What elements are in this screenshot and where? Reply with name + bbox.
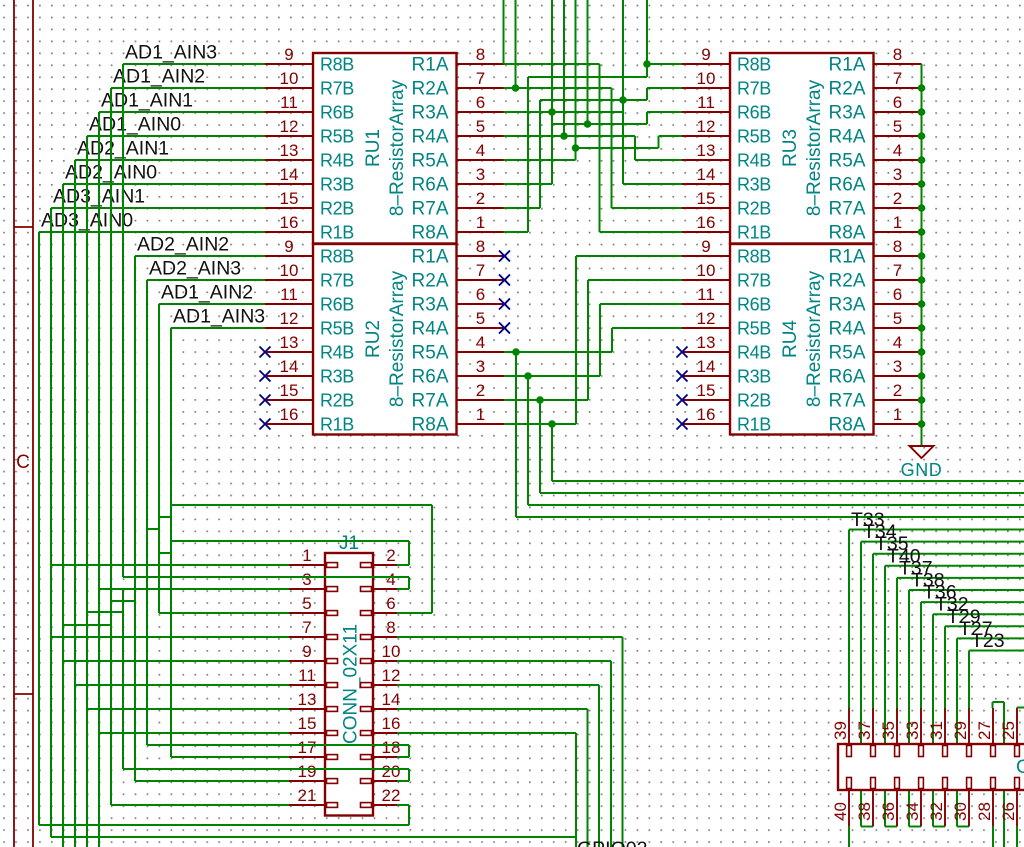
wire RU2.1 row424 bbox=[504, 423, 576, 425]
RU4 pin 7 line bbox=[874, 279, 922, 281]
P2 pin 40 line bbox=[848, 790, 850, 826]
svg-text:12: 12 bbox=[697, 309, 716, 328]
wire bundle vertical x=135 bbox=[134, 256, 136, 781]
P2 pin 35 line bbox=[896, 708, 898, 744]
svg-text:R5A: R5A bbox=[829, 151, 866, 172]
svg-text:4: 4 bbox=[893, 141, 902, 160]
svg-text:11: 11 bbox=[280, 93, 298, 112]
svg-text:R3B: R3B bbox=[320, 175, 354, 195]
P2 pin 38 line bbox=[872, 790, 874, 826]
wire T23 y=650.5 bbox=[969, 650, 1024, 652]
svg-text:R8A: R8A bbox=[829, 223, 866, 244]
svg-text:R6B: R6B bbox=[737, 295, 771, 315]
wire AD2_AIN3 to RU2 pin 10 bbox=[147, 279, 265, 281]
wire RU1.5 row136 bbox=[504, 135, 636, 137]
junction 587.5,124 bbox=[584, 120, 592, 128]
P2 pin 31 pad bbox=[943, 746, 948, 757]
RU4 pin 11 line bbox=[682, 303, 730, 305]
wire J1 pin18 riser bbox=[408, 745, 410, 757]
wire hook vertical x=957 bbox=[956, 638, 958, 826]
P2 pin 36 line bbox=[896, 790, 898, 826]
J1 pin 16 line bbox=[373, 732, 409, 734]
RU4 no-connect pin 13 bbox=[677, 347, 688, 358]
wire from top x=587.5 bbox=[587, 0, 589, 124]
svg-text:J1: J1 bbox=[339, 533, 359, 554]
wire hook stub x=945 bbox=[944, 825, 946, 827]
svg-text:15: 15 bbox=[298, 714, 317, 733]
wire T29 to pin31 bbox=[944, 626, 946, 708]
wire hook stub x=969 bbox=[968, 825, 970, 827]
wire RU1.8 row64 left bbox=[504, 63, 600, 65]
svg-text:36: 36 bbox=[879, 802, 898, 821]
svg-text:R8B: R8B bbox=[737, 247, 771, 267]
P2 pin 33 pad bbox=[919, 746, 924, 757]
svg-text:R8B: R8B bbox=[737, 55, 771, 75]
P2 pin 37 line bbox=[872, 708, 874, 744]
bus riser x=516 bbox=[515, 352, 517, 517]
svg-text:21: 21 bbox=[298, 786, 317, 805]
wire x=528 bbox=[527, 77, 529, 232]
wire to RU3.16 row232 bbox=[600, 231, 683, 233]
svg-text:R1A: R1A bbox=[412, 55, 449, 76]
junction rail y=376 bbox=[918, 372, 926, 380]
P2 pin 27 line bbox=[992, 708, 994, 744]
J1 pin 7 line bbox=[289, 636, 325, 638]
svg-text:13: 13 bbox=[280, 333, 299, 352]
svg-text:8: 8 bbox=[893, 237, 902, 256]
svg-text:R5A: R5A bbox=[412, 151, 449, 172]
RU4 pin 12 line bbox=[682, 327, 730, 329]
wire GPIO vertical x=622.5 bbox=[622, 637, 624, 847]
connector P2 body bbox=[838, 744, 1024, 790]
J1 pin 6 line bbox=[373, 612, 409, 614]
P2 pin 26 line bbox=[1016, 790, 1018, 826]
P2 pin 29 pad bbox=[967, 746, 972, 757]
svg-text:38: 38 bbox=[855, 802, 874, 821]
svg-text:R3A: R3A bbox=[412, 295, 449, 316]
svg-text:13: 13 bbox=[697, 333, 716, 352]
junction 528,376 bbox=[524, 372, 532, 380]
resistor array RU4 body bbox=[730, 244, 874, 435]
wire T23 to pin29 bbox=[968, 651, 970, 709]
P2 pin 25 pad bbox=[1015, 746, 1020, 757]
junction rail y=160 bbox=[918, 156, 926, 164]
wire jog y=553 bbox=[159, 552, 171, 554]
J1 pin 16 pad bbox=[361, 731, 372, 736]
svg-text:3: 3 bbox=[476, 357, 485, 376]
wire hook vertical x=909 bbox=[908, 590, 910, 827]
svg-text:GND: GND bbox=[901, 460, 943, 480]
RU1 pin 6 line bbox=[457, 111, 505, 113]
junction 647,64 bbox=[643, 60, 651, 68]
svg-text:R6B: R6B bbox=[320, 103, 354, 123]
svg-text:15: 15 bbox=[280, 381, 299, 400]
wire to J1 left pin at y=733 bbox=[99, 732, 289, 734]
wire to RU3.9 row64 bbox=[647, 63, 682, 65]
svg-text:3: 3 bbox=[302, 570, 311, 589]
wire bundle vertical x=171 bbox=[170, 328, 172, 757]
wire x=611.5 bbox=[611, 88, 613, 208]
RU2 no-connect pin 15 bbox=[260, 395, 271, 406]
svg-text:5: 5 bbox=[893, 117, 902, 136]
J1 pin 7 pad bbox=[327, 635, 338, 640]
svg-text:35: 35 bbox=[879, 721, 898, 740]
wire T33 to pin39 bbox=[848, 530, 850, 709]
J1 pin 2 pad bbox=[361, 563, 372, 568]
wire J1 pin20 feed y=769 (crosses J1) bbox=[123, 768, 409, 770]
RU3 pin 14 line bbox=[682, 183, 730, 185]
junction rail y=280 bbox=[918, 276, 926, 284]
wire to RU3.12 row136 bbox=[659, 135, 683, 137]
svg-text:14: 14 bbox=[382, 690, 401, 709]
svg-text:R1B: R1B bbox=[320, 223, 354, 243]
svg-text:8–ResistorArray: 8–ResistorArray bbox=[387, 79, 408, 216]
wire AD3_AIN1 to RU1 pin 15 bbox=[51, 207, 265, 209]
J1 pin 8 line bbox=[373, 636, 409, 638]
RU4 pin 8 line bbox=[874, 255, 922, 257]
wire GPIO vertical x=599 bbox=[598, 685, 600, 847]
wire J1 pin14 to GPIO bbox=[397, 708, 588, 710]
wire J1 pin12 to GPIO bbox=[397, 684, 599, 686]
wire AD3_AIN0 to RU1 pin 16 bbox=[39, 231, 265, 233]
RU4 pin 14 line bbox=[682, 375, 730, 377]
svg-text:6: 6 bbox=[476, 93, 485, 112]
wire RU2.4 row352 bbox=[504, 351, 612, 353]
frame row tick bottom bbox=[14, 693, 33, 695]
svg-text:12: 12 bbox=[280, 117, 299, 136]
svg-text:8: 8 bbox=[476, 45, 485, 64]
svg-text:R4A: R4A bbox=[829, 127, 866, 148]
wire AD1_AIN1 to RU1 pin 11 bbox=[99, 111, 265, 113]
wire x=1004 down bbox=[1003, 702, 1005, 847]
wire to RU3.10 row88 bbox=[647, 87, 682, 89]
svg-text:11: 11 bbox=[697, 285, 715, 304]
svg-text:5: 5 bbox=[893, 309, 902, 328]
bus riser x=552 bbox=[551, 424, 553, 481]
svg-text:R4B: R4B bbox=[737, 151, 771, 171]
svg-text:15: 15 bbox=[697, 381, 716, 400]
RU3 pin 4 line bbox=[874, 159, 922, 161]
svg-text:R7A: R7A bbox=[829, 199, 866, 220]
wire bundle vertical x=123 bbox=[122, 64, 124, 577]
svg-text:14: 14 bbox=[697, 357, 716, 376]
wire bundle vertical x=51 bbox=[50, 208, 52, 837]
RU4 no-connect pin 15 bbox=[677, 395, 688, 406]
svg-text:AD1_AIN0: AD1_AIN0 bbox=[89, 114, 181, 136]
bus wire y=517 bbox=[516, 516, 1024, 518]
svg-text:6: 6 bbox=[893, 93, 902, 112]
svg-text:RU3: RU3 bbox=[780, 129, 801, 167]
frame border line left inner bbox=[32, 0, 34, 847]
wire hook horizontal to pin x=921 bbox=[909, 826, 921, 828]
wire AD1_AIN3 to RU2 pin 12 bbox=[171, 327, 265, 329]
wire T37 y=577.9 bbox=[897, 577, 1024, 579]
wire from top x=552 bbox=[551, 0, 553, 184]
wire hook stub x=921 bbox=[920, 825, 922, 827]
J1 pin 15 pad bbox=[327, 731, 338, 736]
bus wire y=481 bbox=[552, 480, 1024, 482]
wire J1 pin22 stub bbox=[397, 804, 409, 806]
wire T34 y=541.6 bbox=[861, 541, 1024, 543]
J1 pin 15 line bbox=[289, 732, 325, 734]
svg-text:AD1_AIN2: AD1_AIN2 bbox=[161, 282, 253, 304]
wire to RU3.13 row160 bbox=[635, 159, 682, 161]
svg-text:7: 7 bbox=[893, 69, 902, 88]
svg-text:R7B: R7B bbox=[737, 79, 771, 99]
wire x=647 mid bbox=[646, 88, 648, 100]
RU3 pin 13 line bbox=[682, 159, 730, 161]
wire to J1 left pin at y=661 bbox=[63, 660, 289, 662]
wire to RU4.9 row256 bbox=[576, 255, 682, 257]
J1 pin 20 line bbox=[373, 780, 409, 782]
svg-text:39: 39 bbox=[831, 721, 850, 740]
RU2 pin 2 line bbox=[457, 399, 505, 401]
RU2 pin 11 line bbox=[265, 303, 313, 305]
svg-text:8: 8 bbox=[476, 237, 485, 256]
RU2 pin 15 line bbox=[265, 399, 313, 401]
junction 552,112 bbox=[548, 108, 556, 116]
junction 540,400 bbox=[536, 396, 544, 404]
svg-text:6: 6 bbox=[386, 594, 395, 613]
wire T37 to pin35 bbox=[896, 578, 898, 708]
J1 pin 22 pad bbox=[361, 803, 372, 808]
wire AD2_AIN1 to RU1 pin 13 bbox=[75, 159, 265, 161]
wire pin40 down bbox=[848, 826, 850, 847]
RU2 no-connect pin 7 bbox=[499, 275, 510, 286]
wire T36 to pin33 bbox=[920, 602, 922, 708]
wire J1 pin18 stub bbox=[397, 756, 409, 758]
J1 pin 14 pad bbox=[361, 707, 372, 712]
RU4 pin 15 line bbox=[682, 399, 730, 401]
svg-text:10: 10 bbox=[280, 261, 299, 280]
wire AD2_AIN0 to RU1 pin 14 bbox=[63, 183, 265, 185]
svg-text:CONN_02X20: CONN_02X20 bbox=[1016, 757, 1024, 778]
svg-text:R6A: R6A bbox=[412, 175, 449, 196]
J1 pin 22 line bbox=[373, 804, 409, 806]
RU1 pin 15 line bbox=[265, 207, 313, 209]
svg-text:14: 14 bbox=[697, 165, 716, 184]
svg-text:R2A: R2A bbox=[412, 271, 449, 292]
wire bundle vertical x=99 bbox=[98, 112, 100, 847]
wire J1 pin16 to GPIO bbox=[397, 732, 576, 734]
svg-text:40: 40 bbox=[831, 802, 850, 821]
svg-text:32: 32 bbox=[927, 802, 946, 821]
P2 pin 36 pad bbox=[895, 778, 900, 789]
RU1 pin 11 line bbox=[265, 111, 313, 113]
wire to J1 left pin at y=805 bbox=[111, 804, 289, 806]
svg-text:10: 10 bbox=[280, 69, 299, 88]
svg-text:R7B: R7B bbox=[737, 271, 771, 291]
P2 pin 28 pad bbox=[991, 778, 996, 789]
svg-text:12: 12 bbox=[382, 666, 401, 685]
svg-text:C: C bbox=[16, 452, 30, 473]
bus riser x=540 bbox=[539, 400, 541, 493]
P2 pin 30 line bbox=[968, 790, 970, 826]
RU4 pin 4 line bbox=[874, 351, 922, 353]
svg-text:R5B: R5B bbox=[737, 127, 771, 147]
wire x=600 bbox=[599, 304, 601, 376]
wire from top x=564 bbox=[563, 0, 565, 136]
P2 pin 28 line bbox=[992, 790, 994, 826]
wire AD2_AIN2 to RU2 pin 9 bbox=[135, 255, 265, 257]
svg-text:15: 15 bbox=[280, 189, 299, 208]
J1 pin 1 pad bbox=[327, 563, 338, 568]
svg-text:6: 6 bbox=[893, 285, 902, 304]
wire hook vertical x=861 bbox=[860, 542, 862, 827]
RU2 no-connect pin 13 bbox=[260, 347, 271, 358]
svg-text:31: 31 bbox=[927, 721, 946, 740]
svg-text:R3A: R3A bbox=[829, 103, 866, 124]
RU4 no-connect pin 14 bbox=[677, 371, 688, 382]
wire RU1.6 row112 bbox=[504, 111, 624, 113]
svg-text:2: 2 bbox=[893, 381, 902, 400]
svg-text:R4A: R4A bbox=[412, 319, 449, 340]
svg-text:R7B: R7B bbox=[320, 79, 354, 99]
svg-text:27: 27 bbox=[975, 721, 994, 740]
wire x=612 bbox=[611, 328, 613, 352]
RU1 pin 3 line bbox=[457, 183, 505, 185]
wire jog y=612 bbox=[87, 611, 123, 613]
RU4 pin 5 line bbox=[874, 327, 922, 329]
wire RU1.3 row184 bbox=[504, 183, 553, 185]
wire RU1.1 row232 bbox=[504, 231, 529, 233]
svg-text:1: 1 bbox=[893, 405, 902, 424]
wire y=837 bbox=[51, 836, 576, 838]
J1 pin 5 line bbox=[289, 612, 325, 614]
svg-text:R5A: R5A bbox=[412, 343, 449, 364]
J1 pin 17 pad bbox=[327, 755, 338, 760]
RU2 pin 14 line bbox=[265, 375, 313, 377]
svg-text:4: 4 bbox=[476, 333, 485, 352]
svg-text:13: 13 bbox=[298, 690, 317, 709]
RU3 pin 15 line bbox=[682, 207, 730, 209]
svg-text:11: 11 bbox=[280, 285, 298, 304]
P2 pin 25 line bbox=[1016, 708, 1018, 744]
svg-text:R7B: R7B bbox=[320, 271, 354, 291]
wire from top x=623 bbox=[622, 0, 624, 184]
wire to RU4.10 row280 bbox=[588, 279, 682, 281]
J1 pin 12 pad bbox=[361, 683, 372, 688]
RU3 pin 3 line bbox=[874, 183, 922, 185]
svg-text:11: 11 bbox=[697, 93, 715, 112]
RU4 pin 6 line bbox=[874, 303, 922, 305]
svg-text:8–ResistorArray: 8–ResistorArray bbox=[387, 270, 408, 407]
svg-text:10: 10 bbox=[697, 69, 716, 88]
J1 pin 19 line bbox=[289, 780, 325, 782]
J1 pin 9 line bbox=[289, 660, 325, 662]
P2 pin 35 pad bbox=[895, 746, 900, 757]
bus wire y=493 bbox=[540, 492, 1024, 494]
svg-text:8–ResistorArray: 8–ResistorArray bbox=[804, 79, 825, 216]
wire hook vertical x=885 bbox=[884, 566, 886, 827]
wire hook horizontal to pin x=897 bbox=[885, 826, 897, 828]
svg-text:20: 20 bbox=[382, 762, 401, 781]
J1 pin 20 pad bbox=[361, 779, 372, 784]
svg-text:18: 18 bbox=[382, 738, 401, 757]
junction 516,352 bbox=[512, 348, 520, 356]
svg-text:AD2_AIN2: AD2_AIN2 bbox=[137, 234, 229, 256]
J1 pin 18 pad bbox=[361, 755, 372, 760]
svg-text:R6B: R6B bbox=[737, 103, 771, 123]
svg-text:AD1_AIN1: AD1_AIN1 bbox=[101, 90, 193, 112]
RU2 no-connect pin 14 bbox=[260, 371, 271, 382]
RU4 no-connect pin 16 bbox=[677, 419, 688, 430]
wire x=599.5 bbox=[599, 64, 601, 232]
wire bundle vertical x=39 bbox=[38, 232, 40, 825]
RU2 pin 9 line bbox=[265, 255, 313, 257]
wire to J1 left pin at y=589 bbox=[99, 588, 289, 590]
svg-text:7: 7 bbox=[893, 261, 902, 280]
wire AD1_AIN0 to RU1 pin 12 bbox=[87, 135, 265, 137]
RU4 pin 1 line bbox=[874, 423, 922, 425]
RU3 pin 2 line bbox=[874, 207, 922, 209]
RU2 no-connect pin 8 bbox=[499, 251, 510, 262]
RU3 pin 1 line bbox=[874, 231, 922, 233]
J1 pin 18 line bbox=[373, 756, 409, 758]
junction rail y=424 bbox=[918, 420, 926, 428]
wire AD1_AIN2 to RU2 pin 11 bbox=[159, 303, 265, 305]
wire J1 pin4 stub bbox=[397, 588, 409, 590]
J1 pin 17 line bbox=[289, 756, 325, 758]
svg-text:4: 4 bbox=[893, 333, 902, 352]
wire hook horizontal to pin x=873 bbox=[861, 826, 873, 828]
junction rail y=304 bbox=[918, 300, 926, 308]
svg-text:6: 6 bbox=[476, 285, 485, 304]
RU2 pin 16 line bbox=[265, 423, 313, 425]
svg-text:R1B: R1B bbox=[737, 223, 771, 243]
P2 pin 32 line bbox=[944, 790, 946, 826]
svg-text:R4B: R4B bbox=[737, 343, 771, 363]
wire x=647 low bbox=[646, 112, 648, 124]
RU1 pin 13 line bbox=[265, 159, 313, 161]
svg-text:7: 7 bbox=[476, 261, 485, 280]
wire J1 pin18 feed y=745 (crosses J1) bbox=[147, 744, 409, 746]
svg-text:4: 4 bbox=[476, 141, 485, 160]
P2 pin 34 line bbox=[920, 790, 922, 826]
svg-text:R7A: R7A bbox=[412, 199, 449, 220]
svg-text:R7A: R7A bbox=[829, 391, 866, 412]
svg-text:2: 2 bbox=[893, 189, 902, 208]
wire row77 bbox=[528, 76, 647, 78]
wire to J1 left pin at y=757 bbox=[171, 756, 289, 758]
bus wire y=505 bbox=[528, 504, 1024, 506]
RU3 pin 10 line bbox=[682, 87, 730, 89]
junction 552,424 bbox=[548, 420, 556, 428]
svg-text:5: 5 bbox=[476, 309, 485, 328]
svg-text:3: 3 bbox=[893, 357, 902, 376]
RU2 pin 6 line bbox=[457, 303, 505, 305]
resistor array RU2 body bbox=[313, 244, 457, 435]
RU2 pin 10 line bbox=[265, 279, 313, 281]
RU4 pin 2 line bbox=[874, 399, 922, 401]
wire GPIO vertical x=587.5 bbox=[587, 709, 589, 847]
P2 pin 38 pad bbox=[871, 778, 876, 789]
wire J1 pin2 stub bbox=[397, 564, 409, 566]
connector J1 body bbox=[325, 553, 373, 816]
wire pin25 from edge bbox=[1017, 707, 1024, 709]
svg-text:9: 9 bbox=[302, 642, 311, 661]
junction rail y=400 bbox=[918, 396, 926, 404]
wire J1 pin8 to GPIO bbox=[397, 636, 623, 638]
wire from top x=503.5 bbox=[503, 0, 505, 64]
wire from top x=575.5 bbox=[575, 0, 577, 148]
J1 pin 6 pad bbox=[361, 611, 372, 616]
wire J1 pin2 feed y=541 bbox=[171, 540, 409, 542]
svg-text:13: 13 bbox=[280, 141, 299, 160]
svg-text:16: 16 bbox=[280, 213, 299, 232]
wire J1 pin4 riser bbox=[408, 577, 410, 589]
wire RU1.4 row160 bbox=[504, 159, 576, 161]
